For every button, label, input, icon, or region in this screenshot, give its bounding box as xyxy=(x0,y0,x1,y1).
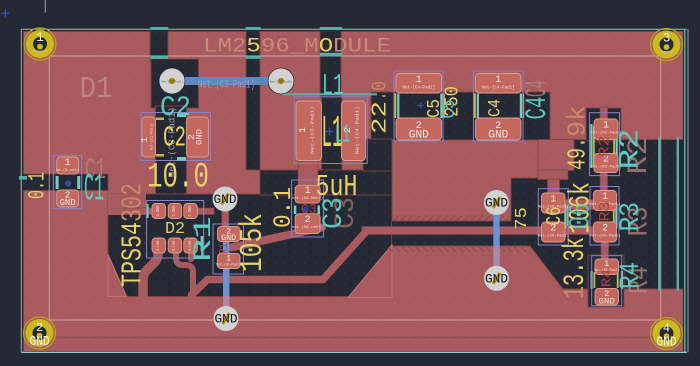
teal track across channel 2 top xyxy=(246,27,261,30)
keepout channel behind title char 5 xyxy=(246,31,260,170)
svg-text:1: 1 xyxy=(297,127,308,133)
IC D2 pad 6 xyxy=(184,238,198,253)
via Net-(C3-Pad1) right xyxy=(268,68,295,95)
resistor R4 pad 1 xyxy=(595,259,619,275)
resistor R3 pad 2 xyxy=(594,222,617,242)
wire diagonal long track to R1 xyxy=(232,228,323,248)
teal track across channel 3 xyxy=(320,53,343,57)
svg-text:D1: D1 xyxy=(80,72,113,107)
svg-text:22: 22 xyxy=(368,101,393,134)
svg-text:L1: L1 xyxy=(322,69,344,104)
courtyard C6 xyxy=(538,189,568,245)
svg-text:GND: GND xyxy=(485,272,508,287)
svg-text:1: 1 xyxy=(305,186,311,197)
wire C2 zone to GND via xyxy=(222,192,229,200)
IC D2 pad 2 xyxy=(168,204,182,219)
courtyard C2 xyxy=(141,113,211,161)
teal track across channel 1 top xyxy=(150,27,168,30)
capacitor C1 pad 1 xyxy=(57,157,79,174)
svg-text:1: 1 xyxy=(495,75,501,86)
svg-text:C3: C3 xyxy=(301,203,317,219)
svg-text:R2: R2 xyxy=(615,128,646,169)
mounting hole 1 xyxy=(24,28,56,60)
courtyard C3 xyxy=(292,180,324,237)
courtyard C1 xyxy=(53,155,81,208)
wire D2 pad5 elbow down xyxy=(176,250,193,297)
svg-text:10.0: 10.0 xyxy=(147,158,209,198)
svg-text:Net-[C4-Pad1]: Net-[C4-Pad1] xyxy=(482,86,515,91)
teal pad side bars xyxy=(56,94,623,290)
B.Cu GND link right xyxy=(493,202,499,246)
teal track below L1 refdes xyxy=(283,93,377,95)
svg-text:Net-(C3-Pad1): Net-(C3-Pad1) xyxy=(270,79,292,83)
svg-text:GND: GND xyxy=(409,130,429,142)
anchor cross L1 xyxy=(326,128,334,136)
board edge top left part xyxy=(21,28,350,30)
svg-text:C4: C4 xyxy=(484,99,505,117)
svg-text:06: 06 xyxy=(563,203,597,229)
capacitor C2 pad 2 xyxy=(187,117,209,157)
wire from long GND track down-left to bottom pour xyxy=(192,231,368,296)
svg-text:2: 2 xyxy=(36,321,43,335)
resistor R1 pad 1 xyxy=(218,254,241,269)
svg-text:1: 1 xyxy=(65,158,71,169)
svg-text:3: 3 xyxy=(663,32,671,46)
svg-text:C5: C5 xyxy=(439,100,461,119)
svg-text:0.1: 0.1 xyxy=(24,172,50,199)
courtyard D2 xyxy=(147,201,204,259)
zone hatch marks xyxy=(388,216,526,253)
svg-text:1: 1 xyxy=(558,286,592,299)
capacitor C1 pad 2 xyxy=(57,190,79,207)
svg-text:1-GND: 1-GND xyxy=(187,205,193,216)
svg-text:GND: GND xyxy=(485,196,508,211)
svg-text:GND: GND xyxy=(195,129,205,145)
courtyard L1 xyxy=(294,97,367,164)
wire L1 pad1 down to C3 pad1 xyxy=(298,161,318,188)
keepout between C2 pads xyxy=(156,106,187,194)
svg-text:C3: C3 xyxy=(319,197,351,229)
IC D2 pad 4 xyxy=(152,238,166,253)
wire C6 pad1 up to pour xyxy=(538,140,574,171)
svg-text:C6: C6 xyxy=(543,207,567,226)
resistor R2 pad 1 xyxy=(594,119,618,140)
svg-text:R3: R3 xyxy=(615,202,647,232)
anchor cross C5 xyxy=(418,102,424,108)
svg-text:R4: R4 xyxy=(615,262,647,289)
wire R2 pad2 to R3 pad1 xyxy=(600,170,608,192)
svg-text:L1: L1 xyxy=(335,121,350,150)
resistor R2 pad 2 xyxy=(594,154,618,173)
svg-text:1: 1 xyxy=(36,31,44,45)
svg-text:GND: GND xyxy=(599,297,615,307)
svg-text:49.: 49. xyxy=(562,137,592,170)
yellow pad edge bars xyxy=(395,94,619,289)
svg-text:GND: GND xyxy=(215,312,238,327)
keepout channel above C2 xyxy=(150,31,168,62)
IC D2 pad 5 xyxy=(168,238,182,253)
courtyard R1 xyxy=(213,224,244,274)
svg-text:2-GND: 2-GND xyxy=(171,205,177,216)
mounting hole 4 xyxy=(651,318,683,350)
via GND lower-left xyxy=(214,306,239,331)
teal vertical track right 1 xyxy=(658,137,660,291)
svg-text:TPS54: TPS54 xyxy=(117,222,150,287)
inductor L1 pad 2 xyxy=(342,101,366,161)
capacitor C5 pad 1 xyxy=(396,74,442,94)
IC D2 pad 3 xyxy=(152,204,166,219)
svg-text:4: 4 xyxy=(663,322,670,336)
svg-text:GND: GND xyxy=(60,197,76,208)
svg-text:R1: R1 xyxy=(218,243,231,254)
via GND upper-left xyxy=(213,187,238,212)
inductor L1 pad 1 xyxy=(296,101,322,161)
resistor R4 pad 2 xyxy=(595,289,619,306)
svg-text:GND: GND xyxy=(221,234,236,243)
mounting hole 2 xyxy=(24,317,56,349)
courtyard C4 xyxy=(474,71,524,141)
svg-text:0.1: 0.1 xyxy=(270,187,298,228)
capacitor C3 pad 2 xyxy=(295,214,320,234)
courtyard R4 xyxy=(592,256,622,306)
svg-text:3-GND: 3-GND xyxy=(155,205,161,216)
svg-text:Net-(C3-Pad1): Net-(C3-Pad1) xyxy=(161,79,183,83)
capacitor C5 pad 2 xyxy=(396,118,442,140)
anchor cross C4 xyxy=(491,102,497,108)
wire D2 pad1 to left pour xyxy=(124,208,153,215)
keepout C1 slot to board edge xyxy=(21,174,108,191)
wire D2 pad4 down to bottom pour (wide) xyxy=(143,250,158,297)
teal vertical track right 2 xyxy=(677,137,679,291)
svg-text:C2: C2 xyxy=(163,122,186,155)
svg-text:C4: C4 xyxy=(521,96,554,119)
svg-text:GND: GND xyxy=(214,192,237,207)
mounting hole 3 xyxy=(651,29,683,61)
B.Cu track between vias Net-(C3-Pad1) xyxy=(172,77,281,85)
svg-text:R4: R4 xyxy=(600,269,615,287)
board edge bottom xyxy=(21,351,687,353)
svg-text:R2: R2 xyxy=(597,136,613,157)
svg-text:Net-[C1-Pad1]: Net-[C1-Pad1] xyxy=(150,124,155,150)
svg-text:1: 1 xyxy=(603,121,609,132)
pour triangle bottom-left xyxy=(108,255,127,297)
capacitor C4 pad 2 xyxy=(476,118,522,140)
board edge left xyxy=(20,29,22,352)
teal stub at C1 to board edge xyxy=(19,176,27,180)
keepout right region around R2/R3/C6/R4 xyxy=(392,140,684,290)
via at C1 xyxy=(65,181,71,187)
wire R2 pad1 to pour above xyxy=(600,107,608,120)
svg-text:LM2596_MODULE: LM2596_MODULE xyxy=(203,34,391,58)
wire GND via to R1 pad2 xyxy=(222,205,229,228)
teal track across channel 2 xyxy=(246,55,261,58)
courtyard C5 xyxy=(394,71,443,141)
B.Cu GND link left xyxy=(223,242,229,296)
resistor R3 pad 1 xyxy=(594,191,617,211)
keepout around via A xyxy=(151,59,199,108)
svg-text:Net-(C3-Pad1): Net-(C3-Pad1) xyxy=(310,106,316,154)
svg-text:1: 1 xyxy=(550,195,556,206)
wire D2 pad6 stub xyxy=(188,250,194,259)
svg-text:302: 302 xyxy=(117,183,150,222)
capacitor C4 pad 1 xyxy=(476,74,522,94)
svg-text:1: 1 xyxy=(416,75,422,86)
svg-text:ne-(N-net): ne-(N-net) xyxy=(56,168,80,173)
thermal spokes C2 xyxy=(156,118,164,121)
via GND lower-right xyxy=(484,266,509,291)
capacitor C3 pad 1 xyxy=(295,185,320,203)
svg-text:Net-(C3-Pad1): Net-(C3-Pad1) xyxy=(198,78,255,91)
teal track across channel 3 top xyxy=(320,27,343,30)
svg-text:5-net: 5-net xyxy=(171,240,177,251)
board edge top right part xyxy=(350,28,687,30)
wire D2 pad3 right xyxy=(196,208,214,215)
board edge right teal track xyxy=(684,30,686,352)
board fab outline rectangle xyxy=(49,56,660,320)
via GND upper-right xyxy=(484,190,509,215)
wire C6 pad1 to R3 pad1 xyxy=(565,200,594,210)
svg-text:4-net: 4-net xyxy=(155,240,161,251)
svg-text:GND: GND xyxy=(657,336,677,351)
capacitor C2 pad 1 xyxy=(142,117,156,157)
pour triangle right of central dark xyxy=(348,245,392,298)
long GND wire to R3 pad2 xyxy=(362,227,594,235)
svg-text:D2: D2 xyxy=(165,220,185,239)
svg-text:5: 5 xyxy=(246,34,260,58)
resistor R1 pad 2 xyxy=(218,227,241,242)
svg-text:GND: GND xyxy=(30,335,50,350)
grid origin cross xyxy=(1,9,9,17)
board edge right xyxy=(687,29,689,352)
svg-text:Net-[C4-Pad1]: Net-[C4-Pad1] xyxy=(402,86,435,91)
wire R3 pad2 to R4 pad1 xyxy=(601,240,609,261)
svg-text:3.3k: 3.3k xyxy=(559,237,593,286)
IC D2 pad 1 xyxy=(184,204,198,219)
keepout channel at L1 xyxy=(320,31,341,98)
svg-text:Net-(C4-Pad1): Net-(C4-Pad1) xyxy=(355,106,361,154)
svg-text:C4: C4 xyxy=(521,80,554,97)
svg-text:105k: 105k xyxy=(237,213,271,272)
svg-text:C1: C1 xyxy=(84,167,104,211)
svg-text:O: O xyxy=(319,34,333,58)
svg-text:9k: 9k xyxy=(563,105,593,137)
svg-text:R3: R3 xyxy=(597,201,614,221)
via Net-(C3-Pad1) left xyxy=(159,68,186,95)
via at C3 xyxy=(303,206,309,212)
svg-text:R1: R1 xyxy=(189,216,217,262)
svg-text:2: 2 xyxy=(602,224,608,235)
capacitor C6 pad 2 xyxy=(542,222,566,242)
svg-text:75: 75 xyxy=(513,207,532,230)
svg-text:C2: C2 xyxy=(160,93,191,124)
svg-text:1: 1 xyxy=(139,137,150,143)
sheet origin line xyxy=(44,0,46,13)
teal track across channel 1 xyxy=(150,55,168,58)
keepout central region around D2/R1 xyxy=(108,194,392,297)
courtyard R2 xyxy=(590,113,620,176)
svg-text:GND: GND xyxy=(488,130,508,142)
pour tongue left of D2 xyxy=(108,194,146,215)
courtyard R3 xyxy=(590,187,619,246)
capacitor C6 pad 1 xyxy=(542,193,566,213)
keepout band at C5/C4 xyxy=(371,92,550,140)
svg-text:.0: .0 xyxy=(368,81,393,101)
wide track over bottom pour xyxy=(23,337,660,339)
